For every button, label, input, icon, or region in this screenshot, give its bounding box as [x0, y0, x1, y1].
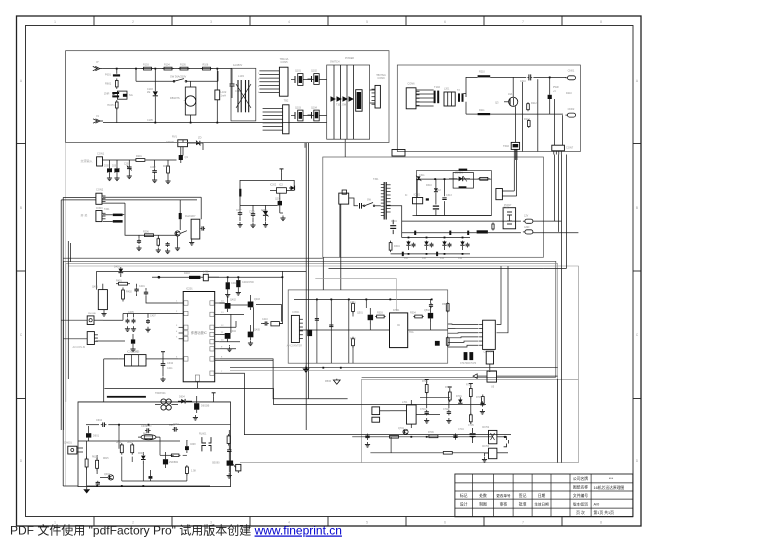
svg-text:R401: R401 [116, 280, 122, 283]
capacitor C205 [166, 242, 170, 247]
capacitor C705 polarized [470, 428, 476, 443]
wire F internal web [78, 425, 230, 486]
svg-text:Q403: Q403 [254, 298, 261, 301]
svg-text:TB1/4A: TB1/4A [280, 57, 289, 61]
wire video bottom rail [230, 367, 558, 369]
svg-text:T602: T602 [503, 144, 509, 148]
capacitor C309 switch [360, 203, 365, 209]
svg-text:CON1: CON1 [97, 152, 105, 156]
choke L103 box [231, 68, 256, 121]
svg-text:IC: IC [405, 194, 408, 197]
ground Q605 [227, 473, 232, 478]
wire staircase 2 [219, 373, 511, 434]
svg-text:Q102: Q102 [311, 70, 318, 73]
wire CON2 pair lower [102, 199, 197, 201]
wire CN502 feed 2 [497, 266, 509, 333]
svg-text:R615: R615 [103, 458, 109, 460]
svg-text:1.5K: 1.5K [191, 470, 196, 473]
svg-text:C411: C411 [167, 367, 173, 370]
svg-text:R705: R705 [476, 396, 482, 399]
svg-text:D604: D604 [179, 396, 185, 399]
capacitor C504 [315, 319, 319, 321]
node junction top rail [116, 68, 118, 70]
label G area [398, 380, 490, 448]
wire G left drop [390, 437, 392, 453]
svg-text:R103: R103 [143, 64, 149, 67]
capacitor C101 varistor [147, 69, 158, 123]
svg-text:AV-CON-IN: AV-CON-IN [73, 346, 86, 349]
keyboard section box top [362, 377, 579, 462]
ground Q401 [101, 310, 106, 317]
svg-text:R403: R403 [184, 272, 190, 275]
capacitor C206 bar [239, 189, 241, 197]
switch SW401 [363, 199, 380, 207]
wire IC203 in [104, 359, 119, 402]
connector CN601 [64, 442, 83, 455]
resistor R609F box [236, 464, 241, 471]
regulator Q401 box [97, 271, 108, 309]
capacitor C408 dark [96, 334, 136, 352]
IC201 left pin stubs [179, 301, 188, 361]
capacitor C406 pair [131, 314, 136, 332]
svg-text:C311: C311 [419, 174, 425, 177]
label IC203 parts [127, 350, 173, 370]
wire lower parallel rail [329, 267, 544, 269]
wire under box A [66, 142, 389, 144]
transformer T102 winding C [458, 93, 466, 101]
svg-text:R611: R611 [116, 442, 122, 444]
wire bus mid vertical pair2 [323, 204, 341, 290]
resistor R402 [122, 288, 125, 302]
wire RV drop [182, 140, 184, 156]
wire vcc row [152, 276, 189, 278]
connector CN501 [287, 311, 303, 348]
winding bar bottom [478, 113, 491, 115]
connector CN502 [479, 320, 495, 353]
svg-text:7: 7 [522, 20, 524, 24]
svg-text:伴音功放IC: 伴音功放IC [191, 330, 208, 335]
connector P live input arrow [93, 60, 103, 71]
connector CN03 oval [523, 219, 533, 223]
svg-text:16A: 16A [508, 93, 513, 96]
wire box C to D rail [64, 257, 323, 259]
svg-text:R211: R211 [479, 109, 485, 112]
label R103 R104 R105 R106 [143, 64, 209, 67]
switch SW601 36A/250V [170, 75, 187, 83]
svg-text:R504: R504 [410, 312, 416, 315]
svg-text:2: 2 [132, 20, 134, 24]
transformer T301 left ticks [381, 185, 384, 216]
svg-text:IC202: IC202 [270, 185, 277, 187]
capacitor C401 [134, 284, 138, 296]
wire G cluster rails [420, 393, 471, 425]
node dots G rails [410, 436, 473, 438]
capacitor C704 [453, 433, 457, 439]
resistor R601 [105, 78, 118, 89]
capacitor C301 [527, 74, 532, 80]
svg-text:制图: 制图 [479, 501, 487, 506]
wire snubber bottom [413, 179, 492, 215]
zener sub outline [453, 173, 473, 189]
title block grid [455, 474, 633, 517]
error amp PC817 box [492, 204, 516, 231]
svg-text:3: 3 [210, 20, 212, 24]
label diode row [404, 258, 463, 260]
power stub F [212, 393, 216, 402]
svg-text:D202: D202 [112, 166, 118, 168]
svg-text:CN02: CN02 [568, 107, 575, 111]
svg-text:R304: R304 [394, 245, 400, 248]
label T101 [330, 57, 354, 64]
mosfet Q301 [495, 77, 518, 106]
svg-text:R106: R106 [203, 64, 209, 67]
resistor R403 dark [189, 276, 203, 279]
transformer T601 windings [155, 392, 178, 410]
wire box B drop to C [515, 149, 517, 160]
svg-text:C304: C304 [391, 220, 397, 223]
svg-text:IC201: IC201 [186, 288, 193, 291]
node dots ac rail [135, 68, 218, 124]
video vertical rail 2 [330, 299, 332, 363]
svg-text:ZNR: ZNR [104, 92, 109, 96]
svg-text:B: B [636, 206, 638, 210]
capacitor C602 [96, 481, 100, 486]
diode D603 [141, 452, 146, 464]
resistor R502 [352, 337, 355, 348]
resistor R705 [481, 395, 484, 406]
resistor R302 [478, 177, 490, 180]
ground C205 [165, 249, 170, 254]
zener ZD301 [449, 171, 470, 182]
svg-text:6: 6 [444, 521, 446, 525]
capacitor row C307 [448, 242, 452, 247]
svg-text:CN501: CN501 [292, 311, 300, 314]
svg-text:R402: R402 [126, 291, 132, 294]
capacitor C202 [152, 160, 157, 178]
svg-text:L102: L102 [221, 90, 227, 94]
label Q101 Q102 [295, 70, 318, 110]
transformer T101 secondary bar [356, 90, 362, 112]
wire G mid [390, 411, 440, 415]
video top rail [294, 299, 433, 301]
mosfet Q102 [308, 74, 320, 85]
svg-text:TB2: TB2 [284, 99, 289, 103]
label B section parts [444, 71, 526, 113]
diode D401 [118, 267, 123, 277]
svg-text:TB07S/A: TB07S/A [376, 74, 386, 77]
capacitor C410 pair [261, 321, 283, 326]
relay T401 box [392, 150, 405, 157]
diode D202 [114, 160, 119, 176]
wire bus right 3 [561, 155, 563, 463]
resistor R605F [131, 443, 134, 455]
ground C204 [136, 246, 141, 251]
outer grouping box [68, 266, 578, 463]
capacitor C501 [429, 303, 449, 347]
wire feedback rail 2 [402, 231, 521, 235]
svg-text:Q502: Q502 [424, 309, 431, 312]
svg-text:AV-CONVTER: AV-CONVTER [287, 345, 303, 348]
ground big F [83, 486, 90, 493]
wire snubber top [416, 178, 491, 180]
transistor Q604 dark [163, 452, 179, 468]
svg-text:C401: C401 [139, 285, 145, 288]
wire staircase 3 [104, 389, 486, 405]
video vertical rail 3 [348, 299, 350, 363]
resistor R602 [107, 100, 118, 110]
resistor R605 on top rail [178, 67, 190, 70]
svg-text:IC: IC [397, 323, 400, 327]
label T301 [373, 178, 400, 248]
capacitor row C305 [412, 242, 416, 247]
transformer T101 core lines [334, 65, 354, 139]
svg-text:L201: L201 [444, 88, 450, 91]
svg-text:RL201: RL201 [185, 215, 193, 218]
svg-text:Q1: Q1 [185, 155, 189, 159]
wire CN501 to box [299, 330, 312, 336]
svg-text:IC203 7805: IC203 7805 [127, 350, 140, 353]
svg-text:签记: 签记 [519, 493, 527, 498]
wire fuse chain bottom [116, 108, 118, 123]
capacitor C610 [227, 448, 231, 453]
capacitor C404 [144, 288, 148, 296]
svg-text:B: B [20, 206, 22, 210]
svg-text:F601: F601 [105, 73, 111, 77]
svg-text:2SD882: 2SD882 [169, 461, 179, 464]
capacitor C502 C503 dark pair [460, 352, 477, 365]
resistor R202 [167, 160, 170, 179]
wire video bottom rail2 [230, 369, 497, 371]
svg-text:A/0: A/0 [594, 503, 600, 507]
transformer T102 winding B [444, 92, 455, 106]
svg-text:D601: D601 [93, 435, 100, 438]
ground Q203 [280, 213, 286, 221]
node dots F rails [96, 424, 149, 487]
transistor Q605 dark [212, 461, 233, 466]
wire F right chain [229, 430, 238, 473]
wire G lower rail [370, 437, 508, 453]
svg-text:4A/250V: 4A/250V [233, 64, 243, 67]
svg-text:批准: 批准 [519, 501, 527, 506]
power input section box [66, 51, 389, 143]
svg-text:生效日期: 生效日期 [534, 501, 549, 506]
ground D201 [107, 176, 112, 181]
diode D301 dark [548, 77, 559, 115]
resistor R603 on top rail [142, 67, 154, 70]
svg-text:7D471: 7D471 [107, 103, 115, 107]
transformer T301 right ticks [386, 185, 390, 212]
wire IC right rails [219, 321, 240, 349]
svg-text:Q501: Q501 [357, 312, 364, 315]
svg-text:5: 5 [366, 20, 368, 24]
capacitor C609 dark [149, 470, 153, 481]
capacitor C405 pair [125, 314, 130, 332]
wire rail2 to bus [533, 232, 578, 234]
power flag VCC aux [280, 169, 284, 181]
ground R205 [156, 248, 161, 253]
wire T101 down pair [305, 139, 345, 157]
svg-text:IC2: IC2 [279, 184, 283, 187]
wire secondary top rail [490, 76, 566, 78]
svg-text:C405: C405 [128, 311, 134, 314]
thick bus bar [107, 396, 146, 398]
svg-text:R213: R213 [524, 118, 530, 121]
ground C201 [127, 174, 132, 179]
svg-text:RV1: RV1 [172, 135, 178, 139]
svg-text:设计: 设计 [460, 501, 468, 506]
capacitor C701 [424, 410, 429, 423]
label aux reg [236, 185, 281, 214]
svg-text:16机芯迅达原理图: 16机芯迅达原理图 [594, 485, 625, 490]
resistor R603F oval [138, 435, 160, 440]
connector CON9 [372, 74, 387, 108]
svg-text:Q3: Q3 [495, 101, 499, 105]
wire diode row bottom [391, 252, 470, 256]
wire aux row [240, 204, 278, 206]
resistor R203 dark [179, 200, 182, 230]
varistor RV201 [166, 135, 188, 147]
svg-text:页 次: 页 次 [576, 510, 585, 515]
wire CN502 feed 1 [497, 266, 502, 324]
socket CN703 [489, 448, 509, 459]
capacitor C201 crossed [127, 160, 132, 174]
wire standby rail [106, 159, 177, 161]
ground C208 [250, 223, 255, 228]
svg-text:PDF 文件使用 "pdfFactory Pro" 试用版本: PDF 文件使用 "pdfFactory Pro" 试用版本创建 www.fin… [10, 523, 342, 538]
svg-text:交流输入: 交流输入 [81, 158, 93, 163]
label CON2 CON3 [96, 207, 193, 234]
wire relay outline [102, 203, 178, 235]
svg-text:R505: R505 [442, 303, 448, 306]
wire U501 drop [557, 379, 559, 463]
pdfFactory watermark text [10, 523, 342, 538]
svg-text:R706: R706 [428, 431, 434, 434]
snubber sub-box [416, 169, 491, 216]
diode row D306 [460, 241, 464, 250]
svg-text:D701: D701 [456, 395, 462, 398]
svg-text:文件编号: 文件编号 [573, 493, 588, 498]
svg-text:R202: R202 [163, 166, 169, 168]
svg-text:R212: R212 [531, 102, 537, 105]
wire left bus 1 [63, 198, 96, 487]
main control section box outer [64, 261, 556, 430]
node dots diode row [408, 237, 464, 255]
svg-text:PHONE: PHONE [88, 313, 96, 315]
schematic area outline [66, 51, 389, 486]
wire IC pin2 route [123, 313, 179, 315]
svg-text:C705: C705 [468, 424, 474, 427]
svg-text:8: 8 [600, 521, 602, 525]
label IC201 [88, 288, 268, 334]
transformer T101 box [327, 65, 370, 139]
svg-text:C402: C402 [231, 282, 237, 285]
svg-text:CON6: CON6 [407, 82, 415, 86]
wire mute line [256, 305, 282, 322]
wire bus right 1 [554, 155, 556, 222]
svg-text:审核: 审核 [500, 501, 508, 506]
mosfet Q104 [308, 110, 320, 121]
ground Q402 [227, 345, 232, 352]
resistor R704 [469, 413, 472, 424]
svg-text:R614: R614 [92, 457, 98, 459]
svg-text:N: N [97, 114, 99, 118]
svg-text:CN703: CN703 [482, 446, 490, 448]
resistor R608F [227, 434, 230, 446]
wire D box left links [61, 320, 87, 339]
label B right [524, 92, 572, 121]
transistor Q502 [428, 306, 433, 322]
svg-text:+V: +V [553, 90, 556, 93]
capacitor C304 big [390, 220, 396, 234]
svg-text:D603: D603 [138, 453, 144, 455]
svg-text:T301: T301 [373, 178, 379, 181]
capacitor C607 [169, 424, 178, 432]
svg-text:Q404: Q404 [230, 330, 237, 333]
IC201 right pin stubs [210, 301, 219, 376]
svg-text:R601: R601 [105, 82, 112, 86]
svg-text:T102: T102 [434, 85, 440, 89]
ground C402 [225, 292, 230, 297]
svg-text:C208: C208 [249, 212, 255, 214]
svg-text:T101 SW: T101 SW [336, 104, 347, 107]
capacitor C204 [137, 235, 141, 244]
wire jack route [103, 314, 123, 321]
svg-text:C?4700/C?470: C?4700/C?470 [460, 362, 477, 365]
connector CON6 [406, 82, 419, 109]
svg-text:R104: R104 [164, 64, 170, 67]
relay RL201 box [191, 214, 200, 239]
svg-text:标记: 标记 [460, 493, 468, 498]
regulator IC203 box [119, 350, 160, 366]
svg-text:处数: 处数 [479, 493, 487, 498]
output port U501 [473, 371, 558, 388]
ground C202 [152, 178, 157, 183]
resistor R702 [448, 387, 452, 402]
diode D602 [178, 399, 192, 404]
capacitor C703 [480, 401, 485, 414]
video vertical rail 1 [316, 299, 318, 363]
svg-text:Q101: Q101 [295, 70, 302, 73]
svg-text:C607: C607 [173, 424, 179, 426]
wire bus right 2 [558, 155, 560, 232]
diode D204 crossed [263, 205, 269, 221]
wire rail1 to bus [533, 220, 562, 222]
label AC input [81, 158, 93, 163]
zener diode ZD201 [194, 136, 204, 146]
svg-text:ZD: ZD [198, 136, 202, 140]
pulse transformer T602 box [503, 142, 520, 149]
wire plug to switch [349, 198, 358, 206]
wire B internal drops [515, 79, 562, 151]
svg-text:C202: C202 [150, 167, 156, 169]
resistor R604F [120, 443, 123, 455]
svg-text:RY: RY [192, 214, 196, 218]
ground D202 [114, 176, 119, 181]
svg-text:C210: C210 [520, 80, 526, 83]
svg-text:P: P [97, 60, 99, 64]
svg-text:1mH: 1mH [221, 94, 227, 98]
label standby [104, 155, 169, 169]
svg-text:SE090: SE090 [212, 462, 220, 465]
svg-text:CN01: CN01 [568, 69, 575, 73]
wire diode row top [402, 233, 470, 238]
svg-text:C312: C312 [435, 189, 441, 192]
svg-text:TDA: TDA [409, 331, 414, 334]
inductor L401 [203, 274, 219, 281]
capacitor C608 dark [185, 440, 189, 453]
transformer T201 cluster [103, 214, 124, 223]
svg-text:GND: GND [524, 226, 530, 229]
